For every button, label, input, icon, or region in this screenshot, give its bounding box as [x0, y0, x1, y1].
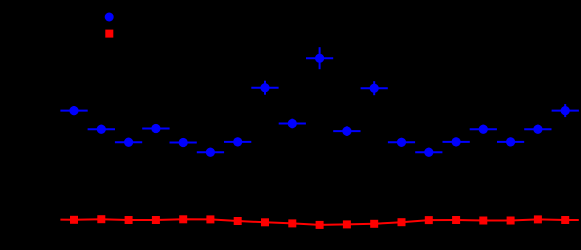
red data point R15 [452, 216, 460, 224]
blue data point B1 with error bars [60, 106, 87, 115]
blue data point B15 with error bars [443, 137, 470, 146]
blue data point B7 with error bars [224, 137, 251, 146]
legend marker: blue series [105, 13, 114, 22]
red data point R19 [561, 216, 569, 224]
legend marker: red series [105, 30, 113, 38]
red data point R11 [343, 220, 351, 228]
red series connecting line [60, 219, 578, 225]
blue data point B9 with error bars [279, 119, 306, 129]
red data point R7 [234, 217, 242, 225]
red data point R18 [534, 215, 542, 223]
blue data point B2 with error bars [88, 125, 115, 134]
red data point R2 [97, 215, 105, 223]
blue data point B3 with error bars [115, 138, 142, 147]
red data point R14 [425, 216, 433, 224]
blue data point B4 with error bars [142, 124, 169, 133]
blue data point B6 with error bars [197, 148, 224, 157]
blue data point B16 with error bars [470, 125, 497, 134]
red data point R16 [479, 217, 487, 225]
red data point R9 [288, 219, 296, 227]
red data point R5 [179, 215, 187, 223]
blue data point B5 with error bars [170, 138, 197, 147]
blue data point B18 with error bars [524, 125, 551, 134]
blue data point B11 with error bars [333, 126, 360, 136]
red data point R6 [206, 215, 214, 223]
red data point R4 [152, 216, 160, 224]
red data point R13 [398, 218, 406, 226]
red data point R10 [316, 221, 324, 229]
blue data point B10 with error bars [306, 47, 333, 69]
red data point R1 [70, 216, 78, 224]
blue data point B8 with error bars [251, 81, 278, 95]
red data point R3 [125, 216, 133, 224]
red data point R17 [507, 217, 515, 225]
blue data point B17 with error bars [497, 137, 524, 146]
red data point R8 [261, 218, 269, 226]
blue data point B14 with error bars [415, 148, 442, 157]
blue data point B19 with error bars [552, 104, 579, 117]
red data point R12 [370, 220, 378, 228]
blue data point B12 with error bars [361, 81, 388, 95]
blue data point B13 with error bars [388, 138, 415, 147]
